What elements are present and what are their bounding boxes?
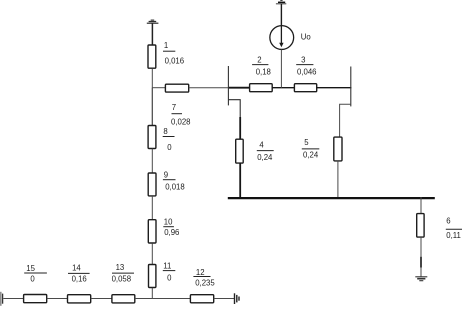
wire bbox=[151, 69, 153, 126]
svg-text:0,11: 0,11 bbox=[446, 231, 461, 240]
wire bbox=[151, 196, 153, 220]
label R1 1/0,016 bbox=[163, 41, 184, 66]
bus bar left bbox=[227, 66, 229, 105]
label R10 10/0,96 bbox=[163, 218, 179, 237]
svg-text:1: 1 bbox=[164, 41, 168, 50]
svg-text:0: 0 bbox=[167, 143, 172, 152]
svg-text:0,028: 0,028 bbox=[171, 118, 191, 127]
bottom bus node line bbox=[228, 197, 435, 199]
svg-text:0: 0 bbox=[167, 274, 172, 283]
wire bbox=[47, 298, 68, 300]
ground below R6 bbox=[415, 277, 427, 281]
wire hook right bbox=[340, 104, 351, 137]
resistor R6 bbox=[417, 214, 424, 238]
wire overlap dark segment bbox=[420, 257, 422, 268]
svg-text:10: 10 bbox=[164, 218, 173, 227]
wire bbox=[151, 149, 153, 173]
resistor R15 bbox=[24, 295, 47, 303]
svg-text:6: 6 bbox=[446, 216, 450, 225]
svg-text:12: 12 bbox=[196, 268, 205, 277]
svg-text:14: 14 bbox=[72, 263, 81, 272]
wire bbox=[151, 243, 153, 264]
label R7 7/0,028 bbox=[171, 103, 191, 127]
source arrow bbox=[279, 25, 283, 47]
svg-text:0,235: 0,235 bbox=[195, 279, 215, 288]
resistor R3 bbox=[294, 84, 316, 92]
wire thick segment to R2 bbox=[228, 87, 249, 89]
wire bbox=[3, 298, 23, 300]
label R6 6/0,11 bbox=[446, 216, 462, 240]
svg-text:0,24: 0,24 bbox=[257, 153, 273, 162]
wire R4 to bus bbox=[239, 163, 241, 199]
ground above source Uo bbox=[276, 1, 286, 4]
label R11 11/0 bbox=[163, 262, 176, 283]
label R13 13/0,058 bbox=[112, 263, 134, 284]
current source U0 circle bbox=[270, 26, 294, 50]
svg-text:11: 11 bbox=[163, 262, 171, 271]
svg-text:0,16: 0,16 bbox=[72, 275, 87, 284]
wire R5 to bus bbox=[337, 161, 339, 199]
label R14 14/0,16 bbox=[68, 263, 90, 283]
svg-text:Uo: Uo bbox=[301, 33, 312, 42]
resistor R10 bbox=[148, 220, 156, 243]
resistor R4 bbox=[236, 139, 244, 163]
resistor R2 bbox=[250, 84, 273, 92]
wire bbox=[151, 288, 153, 299]
resistor R13 bbox=[112, 295, 135, 303]
ground left end of bottom chain bbox=[1, 292, 3, 306]
wire bbox=[91, 298, 112, 300]
wire bbox=[135, 298, 191, 300]
wire R6 to ground bbox=[420, 237, 422, 277]
wire bbox=[280, 4, 282, 25]
svg-text:0,18: 0,18 bbox=[256, 67, 271, 76]
resistor R9 bbox=[148, 173, 156, 196]
svg-text:0,24: 0,24 bbox=[303, 151, 319, 160]
wire bbox=[214, 298, 235, 300]
svg-text:3: 3 bbox=[301, 56, 305, 65]
ground right end of bottom chain bbox=[235, 293, 240, 304]
resistor R5 bbox=[334, 137, 342, 161]
svg-text:5: 5 bbox=[304, 138, 309, 147]
svg-text:0,96: 0,96 bbox=[164, 228, 179, 237]
bus bar right bbox=[350, 67, 352, 107]
ground top-left feeder bbox=[147, 20, 159, 23]
wire vertical chain R8..R11 bbox=[151, 88, 153, 126]
wire bus to R6 bbox=[420, 197, 422, 214]
resistor R12 bbox=[190, 295, 213, 303]
svg-text:0: 0 bbox=[30, 274, 35, 283]
wire hook left bbox=[228, 100, 240, 120]
wire bbox=[151, 23, 153, 45]
label R4 4/0,24 bbox=[257, 141, 274, 162]
label R9 9/0,018 bbox=[163, 170, 185, 191]
node junction to horizontal branch bbox=[152, 87, 165, 89]
svg-text:8: 8 bbox=[163, 127, 167, 136]
svg-text:0,046: 0,046 bbox=[297, 67, 317, 76]
resistor R1 bbox=[148, 45, 156, 68]
resistor R8 bbox=[148, 126, 156, 149]
svg-text:0,016: 0,016 bbox=[165, 57, 185, 66]
label R15 15/0 bbox=[24, 264, 47, 283]
svg-text:9: 9 bbox=[164, 170, 168, 179]
label R8 8/0 bbox=[163, 127, 175, 152]
label R2 2/0,18 bbox=[252, 56, 271, 77]
wire bbox=[189, 87, 250, 89]
label R5 5/0,24 bbox=[302, 138, 320, 159]
wire source to node bbox=[280, 50, 282, 88]
label R12 12/0,235 bbox=[193, 268, 215, 288]
wire bbox=[272, 87, 294, 89]
svg-text:15: 15 bbox=[26, 264, 35, 273]
resistor R7 bbox=[165, 84, 188, 92]
resistor R11 bbox=[149, 265, 156, 288]
svg-text:4: 4 bbox=[259, 141, 264, 150]
wire bbox=[317, 87, 352, 89]
svg-text:0,018: 0,018 bbox=[165, 183, 185, 192]
label R3 3/0,046 bbox=[296, 56, 316, 77]
svg-text:7: 7 bbox=[172, 103, 176, 112]
resistor R14 bbox=[68, 295, 91, 303]
svg-text:0,058: 0,058 bbox=[112, 275, 132, 284]
svg-text:2: 2 bbox=[257, 56, 261, 65]
svg-text:13: 13 bbox=[116, 263, 125, 272]
